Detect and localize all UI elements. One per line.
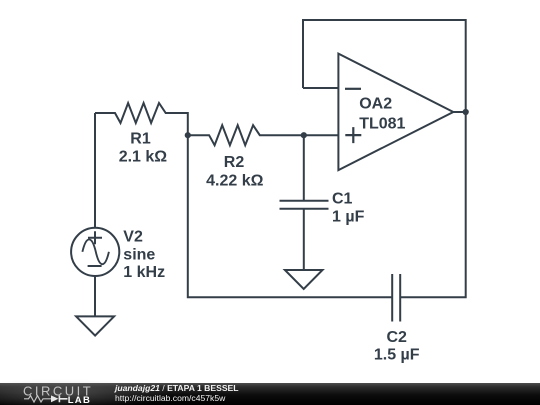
capacitor C1 upper wire: [303, 135, 305, 201]
svg-text:C2: C2: [386, 329, 407, 346]
resistor R1: [95, 103, 188, 123]
op-amp plus symbol: [345, 127, 361, 143]
svg-text:1.5 µF: 1.5 µF: [374, 346, 420, 363]
svg-text:sine: sine: [123, 246, 155, 263]
V2 sine wave: [82, 239, 109, 264]
svg-text:2.1 kΩ: 2.1 kΩ: [119, 148, 168, 165]
svg-text:R2: R2: [224, 154, 245, 171]
op-amp minus symbol: [345, 88, 361, 90]
op-amp OA2 triangle: [338, 54, 453, 171]
svg-text:V2: V2: [123, 229, 143, 246]
wire feedback loop: left vertical, top horizontal, right vertical: [303, 20, 466, 297]
node junction R1-R2: [185, 132, 191, 138]
V2 minus symbol: [88, 265, 102, 267]
svg-text:R1: R1: [130, 130, 151, 147]
svg-text:juandajg21 / ETAPA 1 BESSEL: juandajg21 / ETAPA 1 BESSEL: [114, 383, 239, 393]
capacitor C1 lower wire: [303, 209, 305, 270]
svg-text:4.22 kΩ: 4.22 kΩ: [206, 173, 263, 190]
ground below C1: [285, 270, 323, 289]
svg-text:http://circuitlab.com/c457k5w: http://circuitlab.com/c457k5w: [115, 393, 226, 403]
node junction output: [463, 109, 469, 115]
wire minus input: [303, 87, 338, 89]
logo resistor zigzag: [24, 396, 51, 402]
V2 plus symbol: [88, 231, 102, 244]
svg-text:OA2: OA2: [359, 96, 392, 113]
svg-text:LAB: LAB: [68, 395, 91, 405]
footer bar: [0, 383, 540, 405]
wire op-amp output: [453, 111, 465, 113]
voltage source V2 circle: [71, 228, 119, 276]
ground below V2: [76, 316, 114, 335]
wire V2 bottom: [94, 276, 96, 316]
logo diode symbol: [51, 395, 59, 402]
wire vertical from R1 right end down to bottom wire and bottom-left run: [188, 112, 392, 297]
resistor R2: [188, 125, 339, 145]
capacitor C1 plates: [280, 201, 329, 209]
wire left vertical from R1 to V2: [94, 113, 96, 228]
capacitor C2 plates: [392, 274, 400, 322]
node junction R2-C1: [301, 132, 307, 138]
footer logo glow: [0, 379, 170, 405]
svg-text:1 kHz: 1 kHz: [123, 264, 165, 281]
svg-text:C1: C1: [332, 190, 353, 207]
svg-text:1 µF: 1 µF: [332, 208, 365, 225]
svg-text:TL081: TL081: [359, 116, 405, 133]
